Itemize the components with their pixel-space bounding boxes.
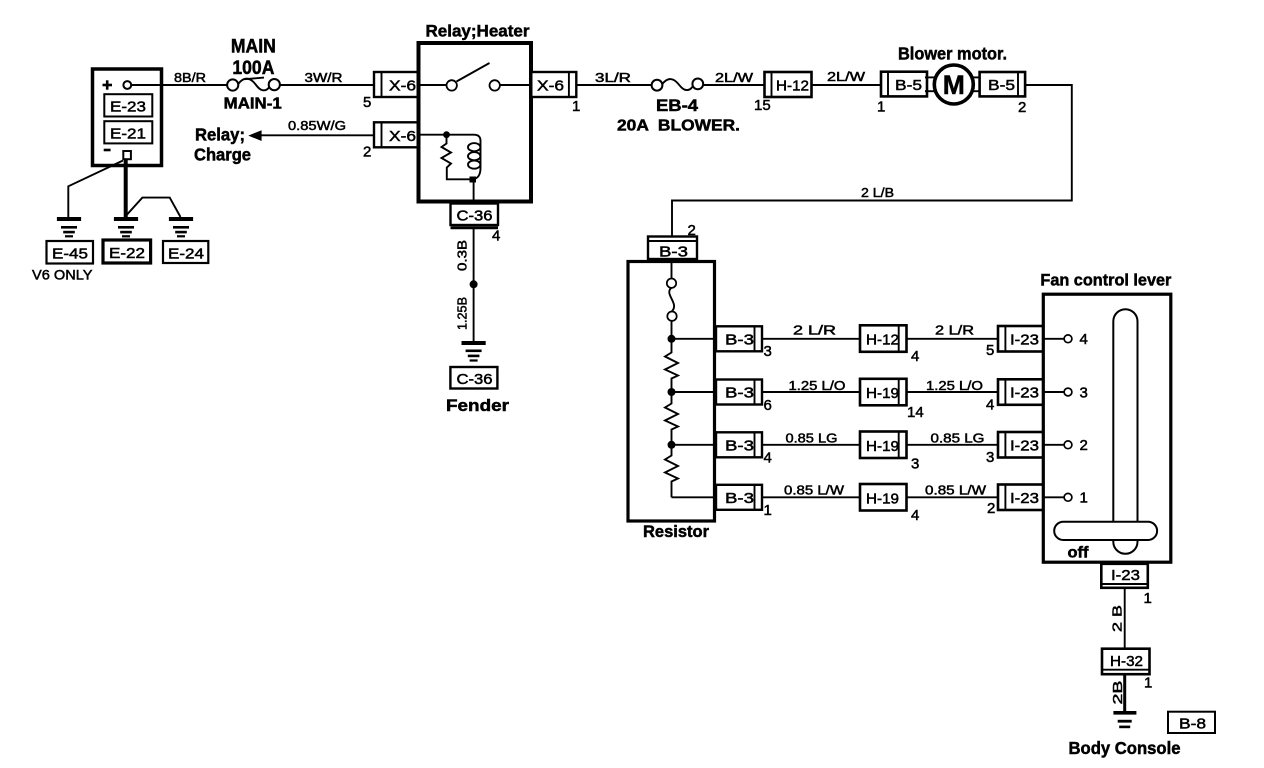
- svg-text:B-5: B-5: [988, 77, 1015, 94]
- svg-text:0.85 LG: 0.85 LG: [931, 430, 985, 445]
- svg-text:4: 4: [911, 507, 919, 524]
- svg-text:H-19: H-19: [866, 490, 899, 507]
- svg-text:1: 1: [1144, 675, 1152, 692]
- svg-text:0.85 L/W: 0.85 L/W: [925, 483, 987, 498]
- svg-text:off: off: [1068, 545, 1090, 562]
- svg-text:3: 3: [986, 449, 994, 466]
- svg-text:100A: 100A: [232, 58, 274, 79]
- svg-text:B-3: B-3: [725, 385, 754, 402]
- svg-text:B-5: B-5: [895, 77, 922, 94]
- svg-text:B-8: B-8: [1179, 716, 1206, 733]
- svg-text:Blower motor.: Blower motor.: [898, 44, 1007, 64]
- svg-text:2: 2: [1080, 437, 1088, 454]
- svg-text:2 L/R: 2 L/R: [793, 323, 836, 338]
- svg-text:Fender: Fender: [446, 396, 509, 415]
- svg-text:1: 1: [877, 99, 885, 116]
- svg-text:I-23: I-23: [1010, 438, 1039, 455]
- svg-text:M: M: [943, 70, 965, 100]
- svg-text:2 B: 2 B: [1110, 605, 1125, 632]
- svg-text:1: 1: [1144, 590, 1152, 607]
- svg-text:0.85 L/W: 0.85 L/W: [784, 483, 845, 498]
- svg-text:0.85W/G: 0.85W/G: [288, 118, 346, 133]
- svg-text:20A BLOWER.: 20A BLOWER.: [617, 118, 740, 135]
- svg-text:14: 14: [907, 404, 924, 421]
- svg-text:5: 5: [363, 94, 371, 111]
- svg-text:B-3: B-3: [659, 244, 688, 261]
- svg-text:E-23: E-23: [110, 99, 146, 116]
- svg-text:E-45: E-45: [52, 246, 88, 263]
- svg-text:B-3: B-3: [725, 332, 754, 349]
- svg-text:H-19: H-19: [866, 438, 899, 455]
- svg-text:5: 5: [986, 342, 994, 359]
- svg-text:H-12: H-12: [866, 332, 899, 349]
- svg-text:4: 4: [764, 450, 772, 467]
- svg-text:4: 4: [492, 228, 500, 245]
- svg-text:H-19: H-19: [866, 385, 899, 402]
- svg-text:EB-4: EB-4: [656, 96, 699, 115]
- svg-text:X-6: X-6: [389, 128, 416, 145]
- svg-text:2B: 2B: [1110, 681, 1125, 705]
- svg-text:2 L/B: 2 L/B: [861, 185, 894, 200]
- svg-text:E-24: E-24: [168, 246, 204, 263]
- svg-text:3L/R: 3L/R: [595, 70, 631, 85]
- svg-text:E-22: E-22: [109, 245, 145, 262]
- svg-text:C-36: C-36: [457, 371, 493, 388]
- svg-text:Relay;: Relay;: [195, 125, 245, 145]
- svg-text:3: 3: [911, 456, 919, 473]
- svg-text:Fan control lever: Fan control lever: [1040, 271, 1171, 290]
- svg-text:1.25 L/O: 1.25 L/O: [926, 378, 983, 393]
- svg-text:X-6: X-6: [537, 78, 564, 95]
- svg-text:4: 4: [986, 397, 994, 414]
- svg-text:2: 2: [1018, 99, 1026, 116]
- svg-text:1.25B: 1.25B: [455, 297, 470, 330]
- svg-text:H-12: H-12: [776, 78, 809, 95]
- svg-text:2 L/R: 2 L/R: [935, 323, 974, 338]
- svg-text:Body Console: Body Console: [1069, 738, 1181, 758]
- svg-text:2: 2: [987, 500, 995, 517]
- svg-text:3: 3: [1080, 385, 1088, 402]
- svg-text:B-3: B-3: [725, 438, 754, 455]
- svg-text:H-32: H-32: [1110, 653, 1143, 670]
- svg-text:1: 1: [1080, 490, 1088, 507]
- svg-text:X-6: X-6: [389, 78, 416, 95]
- svg-text:15: 15: [754, 97, 771, 114]
- svg-text:3W/R: 3W/R: [305, 70, 343, 85]
- svg-text:1: 1: [572, 98, 580, 115]
- svg-text:MAIN: MAIN: [231, 37, 276, 58]
- svg-text:2L/W: 2L/W: [827, 69, 866, 84]
- svg-text:I-23: I-23: [1111, 567, 1140, 584]
- svg-text:C-36: C-36: [457, 208, 493, 225]
- svg-text:8B/R: 8B/R: [174, 70, 206, 85]
- svg-text:4: 4: [911, 348, 919, 365]
- svg-text:E-21: E-21: [110, 126, 146, 143]
- svg-text:1.25 L/O: 1.25 L/O: [789, 378, 846, 393]
- svg-text:1: 1: [764, 502, 772, 519]
- svg-text:I-23: I-23: [1010, 385, 1039, 402]
- svg-text:0.85 LG: 0.85 LG: [786, 430, 838, 445]
- svg-text:I-23: I-23: [1010, 490, 1039, 507]
- svg-text:MAIN-1: MAIN-1: [224, 96, 282, 113]
- svg-text:0.3B: 0.3B: [455, 240, 470, 271]
- svg-text:V6 ONLY: V6 ONLY: [32, 267, 93, 283]
- svg-text:Charge: Charge: [194, 145, 251, 165]
- svg-text:6: 6: [764, 397, 772, 414]
- svg-text:2: 2: [363, 144, 371, 161]
- svg-text:3: 3: [764, 343, 772, 360]
- svg-text:I-23: I-23: [1010, 332, 1039, 349]
- svg-text:Resistor: Resistor: [643, 522, 709, 541]
- svg-text:2L/W: 2L/W: [715, 70, 754, 85]
- svg-text:Relay;Heater: Relay;Heater: [426, 22, 530, 41]
- svg-text:4: 4: [1080, 331, 1088, 348]
- svg-text:B-3: B-3: [725, 490, 754, 507]
